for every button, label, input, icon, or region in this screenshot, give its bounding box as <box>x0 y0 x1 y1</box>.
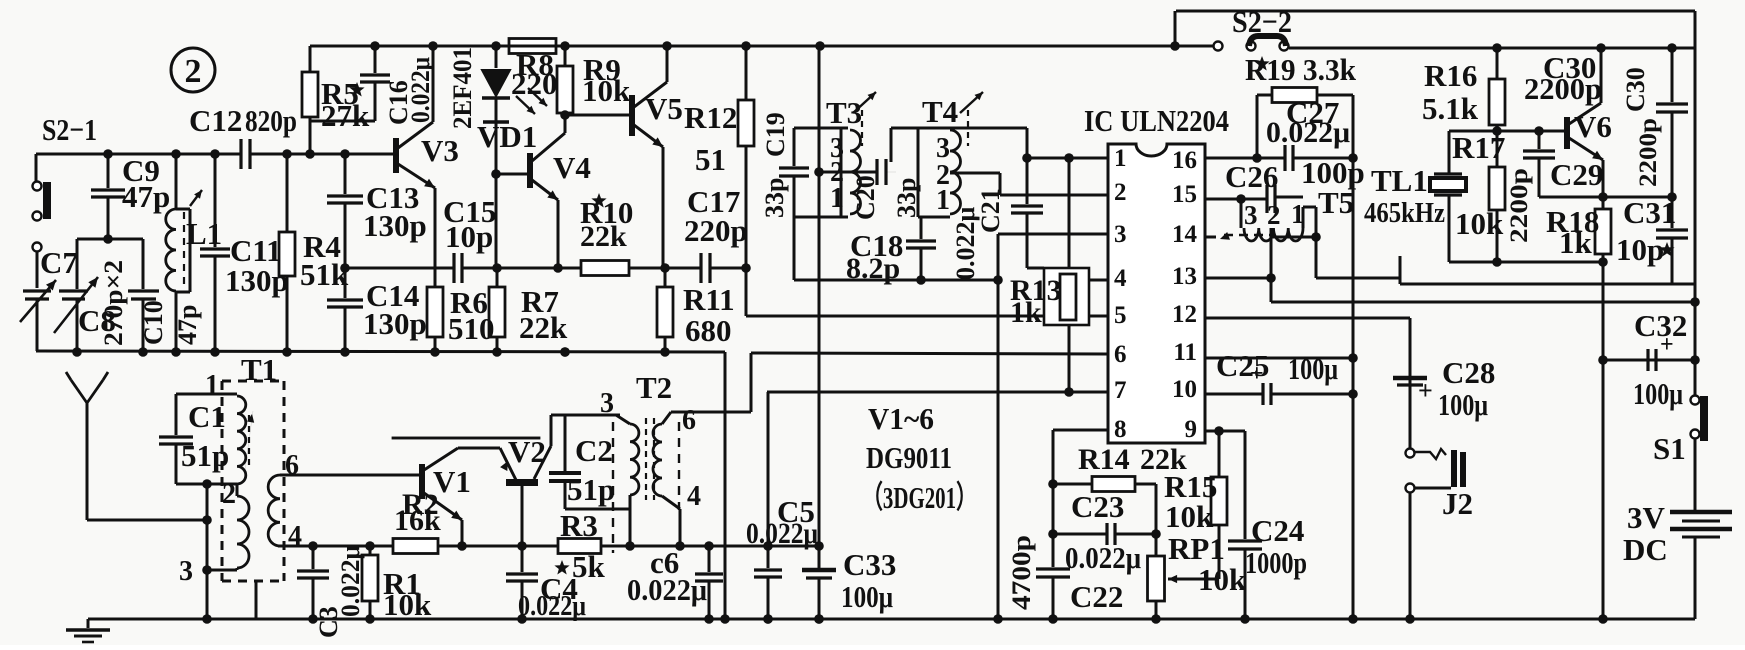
svg-text:130p: 130p <box>363 208 427 243</box>
svg-text:11: 11 <box>1173 339 1197 366</box>
svg-text:RP1: RP1 <box>1168 531 1225 566</box>
svg-text:4: 4 <box>687 481 701 512</box>
svg-text:0.022μ: 0.022μ <box>746 517 818 550</box>
svg-text:C30: C30 <box>1621 67 1650 112</box>
svg-text:10k: 10k <box>1165 499 1214 534</box>
svg-text:8: 8 <box>1114 416 1127 443</box>
svg-text:10p: 10p <box>445 219 493 254</box>
svg-text:1: 1 <box>1114 145 1127 172</box>
svg-text:S2−1: S2−1 <box>42 112 97 147</box>
svg-text:0.022μ: 0.022μ <box>627 572 707 607</box>
svg-text:51k: 51k <box>300 257 349 292</box>
svg-text:15: 15 <box>1172 181 1197 208</box>
svg-text:3: 3 <box>179 556 193 587</box>
svg-text:C23: C23 <box>1071 489 1124 524</box>
svg-text:510: 510 <box>448 311 495 346</box>
svg-text:27k: 27k <box>321 98 370 133</box>
svg-text:T2: T2 <box>636 370 672 405</box>
svg-text:C22: C22 <box>1070 579 1123 614</box>
svg-text:22k: 22k <box>580 220 627 253</box>
svg-text:IC ULN2204: IC ULN2204 <box>1084 103 1229 138</box>
svg-text:1: 1 <box>830 183 844 214</box>
svg-text:T3: T3 <box>826 95 862 130</box>
svg-text:C26: C26 <box>1225 159 1278 194</box>
svg-text:R16: R16 <box>1424 58 1477 93</box>
svg-text:270p×2: 270p×2 <box>99 260 128 346</box>
svg-text:2200p: 2200p <box>1635 118 1662 187</box>
svg-text:C20: C20 <box>851 175 880 220</box>
svg-text:C24: C24 <box>1251 513 1304 548</box>
svg-text:C33: C33 <box>843 547 896 582</box>
svg-text:C7: C7 <box>40 245 78 280</box>
svg-text:T5: T5 <box>1318 185 1354 220</box>
svg-text:0.022μ: 0.022μ <box>1065 540 1141 575</box>
svg-text:10k: 10k <box>1455 206 1504 241</box>
svg-text:10p: 10p <box>1616 232 1664 267</box>
svg-text:1k: 1k <box>1010 296 1042 329</box>
svg-text:51: 51 <box>695 142 726 177</box>
svg-text:680: 680 <box>685 313 732 348</box>
svg-text:47p: 47p <box>173 305 202 345</box>
svg-text:6: 6 <box>682 405 696 436</box>
svg-text:51p: 51p <box>181 438 229 473</box>
svg-text:+: + <box>1418 376 1433 405</box>
svg-text:R19 3.3k: R19 3.3k <box>1245 52 1357 87</box>
svg-text:1: 1 <box>205 370 219 401</box>
svg-text:22k: 22k <box>519 310 568 345</box>
svg-text:DG9011: DG9011 <box>866 440 952 475</box>
svg-text:R14: R14 <box>1078 443 1130 476</box>
svg-text:3: 3 <box>600 388 614 419</box>
svg-text:VD1: VD1 <box>477 119 537 154</box>
svg-text:33p: 33p <box>760 178 789 218</box>
svg-text:V1~6: V1~6 <box>868 401 934 436</box>
svg-text:1: 1 <box>936 185 950 216</box>
svg-text:1: 1 <box>1291 199 1305 229</box>
svg-text:130p: 130p <box>363 306 427 341</box>
svg-text:V5: V5 <box>645 91 683 126</box>
svg-text:5.1k: 5.1k <box>1422 91 1479 126</box>
svg-text:1000p: 1000p <box>1245 545 1307 580</box>
svg-text:10k: 10k <box>383 587 432 622</box>
svg-text:V3: V3 <box>421 133 459 168</box>
svg-text:R17: R17 <box>1452 130 1505 165</box>
svg-text:100μ: 100μ <box>1288 351 1338 386</box>
svg-text:4: 4 <box>1114 265 1127 292</box>
svg-text:5k: 5k <box>572 549 606 584</box>
svg-text:12: 12 <box>1172 301 1197 328</box>
svg-text:0.022μ: 0.022μ <box>336 545 365 617</box>
svg-text:2: 2 <box>185 53 202 90</box>
svg-text:465kHz: 465kHz <box>1364 197 1445 229</box>
svg-text:T4: T4 <box>922 94 958 129</box>
svg-text:220p: 220p <box>684 213 748 248</box>
svg-text:2EF401: 2EF401 <box>448 47 477 129</box>
svg-text:4700p: 4700p <box>1007 535 1036 610</box>
svg-text:16k: 16k <box>394 504 441 537</box>
svg-text:100μ: 100μ <box>1633 376 1683 411</box>
svg-text:1k: 1k <box>1559 225 1593 260</box>
svg-text:L1: L1 <box>186 216 222 251</box>
svg-text:C19: C19 <box>761 112 790 157</box>
svg-text:V6: V6 <box>1574 109 1612 144</box>
svg-text:C29: C29 <box>1550 157 1603 192</box>
svg-text:2: 2 <box>222 479 236 510</box>
svg-text:J2: J2 <box>1442 486 1473 521</box>
svg-text:V1: V1 <box>433 464 471 499</box>
svg-text:16: 16 <box>1172 147 1197 174</box>
svg-text:C25: C25 <box>1216 348 1269 383</box>
svg-text:C12: C12 <box>189 103 242 138</box>
svg-text:130p: 130p <box>225 263 289 298</box>
svg-text:C1: C1 <box>188 399 226 434</box>
svg-text:10k: 10k <box>582 73 631 108</box>
svg-text:3V: 3V <box>1627 500 1666 535</box>
svg-text:3: 3 <box>1114 221 1127 248</box>
svg-text:9: 9 <box>1185 416 1198 443</box>
svg-text:3: 3 <box>1244 200 1258 230</box>
svg-text:33p: 33p <box>892 178 921 218</box>
svg-text:2200p: 2200p <box>1524 71 1602 106</box>
svg-text:2200p: 2200p <box>1506 168 1533 243</box>
svg-text:DC: DC <box>1623 532 1668 567</box>
svg-text:14: 14 <box>1172 221 1198 248</box>
svg-text:V4: V4 <box>553 150 591 185</box>
svg-text:0.022μ: 0.022μ <box>406 57 435 123</box>
svg-text:0.022μ: 0.022μ <box>518 590 586 622</box>
svg-text:0.022μ: 0.022μ <box>1266 116 1350 149</box>
svg-text:C10: C10 <box>139 300 168 345</box>
svg-text:C31: C31 <box>1623 195 1676 230</box>
svg-text:13: 13 <box>1172 263 1197 290</box>
svg-text:820p: 820p <box>245 103 297 138</box>
svg-text:R3: R3 <box>560 508 598 543</box>
svg-text:8.2p: 8.2p <box>846 252 900 285</box>
svg-text:51p: 51p <box>567 472 615 507</box>
svg-text:2: 2 <box>1114 179 1127 206</box>
svg-text:R11: R11 <box>683 282 735 317</box>
svg-text:7: 7 <box>1114 377 1127 404</box>
svg-text:S1: S1 <box>1653 431 1686 466</box>
svg-text:R12: R12 <box>684 100 737 135</box>
svg-text:C21: C21 <box>976 188 1005 233</box>
svg-text:2: 2 <box>1267 200 1281 230</box>
svg-text:（3DG201）: （3DG201） <box>862 480 977 515</box>
svg-text:5: 5 <box>1114 302 1127 329</box>
svg-text:C28: C28 <box>1442 355 1495 390</box>
svg-text:6: 6 <box>1114 341 1127 368</box>
svg-text:100μ: 100μ <box>1438 387 1488 422</box>
svg-text:10: 10 <box>1172 376 1197 403</box>
svg-text:220: 220 <box>511 66 558 101</box>
svg-text:C32: C32 <box>1634 308 1687 343</box>
svg-text:C2: C2 <box>575 433 613 468</box>
svg-text:100μ: 100μ <box>841 579 893 614</box>
svg-text:T1: T1 <box>241 352 277 387</box>
svg-text:47p: 47p <box>122 179 170 214</box>
svg-text:10k: 10k <box>1198 562 1247 597</box>
svg-text:TL1: TL1 <box>1371 163 1428 198</box>
